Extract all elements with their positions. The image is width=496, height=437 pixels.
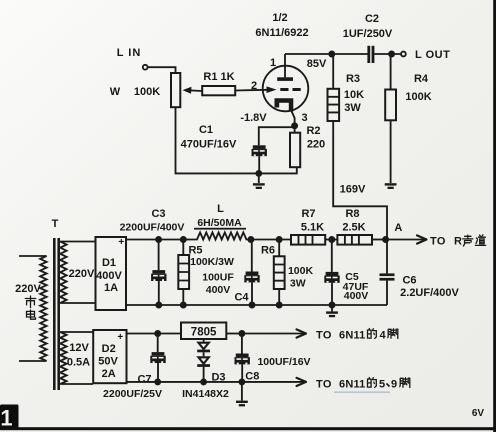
svg-text:1: 1 bbox=[270, 57, 276, 69]
svg-text:1: 1 bbox=[0, 406, 12, 431]
svg-text:R3: R3 bbox=[346, 73, 360, 85]
regulator 7805 bbox=[181, 323, 226, 340]
hanzi 市 bbox=[25, 296, 35, 308]
node C8 top bbox=[238, 330, 245, 337]
wire C3 bottom bbox=[158, 281, 160, 305]
wire R7 to R8 bbox=[325, 239, 337, 241]
wire plate pin1 to top rail bbox=[284, 54, 286, 77]
capacitor C5 47UF 400V bbox=[324, 272, 339, 283]
svg-text:1/2: 1/2 bbox=[272, 12, 287, 24]
svg-text:169V: 169V bbox=[340, 184, 366, 196]
hanzi 道 bbox=[475, 235, 485, 246]
wire C6 drop bbox=[386, 240, 388, 274]
svg-text:3W: 3W bbox=[344, 102, 361, 114]
hanzi 脚 (pin4) bbox=[388, 329, 398, 339]
node plate/R3 junction bbox=[328, 51, 335, 58]
ground symbol (upper supply) bbox=[326, 311, 338, 317]
resistor R7 5.1K bbox=[291, 235, 325, 245]
svg-text:0.5A: 0.5A bbox=[67, 357, 90, 369]
svg-text:3: 3 bbox=[301, 112, 307, 124]
node C1/ground junction bbox=[255, 170, 262, 177]
svg-text:6H/50MA: 6H/50MA bbox=[197, 217, 242, 229]
svg-text:T: T bbox=[52, 218, 59, 230]
wire secondary2 top lead bbox=[60, 332, 93, 334]
svg-text:1A: 1A bbox=[104, 282, 118, 294]
wire B+ rail from D1 to choke bbox=[126, 239, 188, 241]
svg-text:10K: 10K bbox=[344, 89, 364, 101]
wire arrow to 6N11 pins 5,9 bbox=[242, 381, 306, 383]
node cathode junction bbox=[291, 122, 298, 129]
wire secondary1 top lead bbox=[60, 241, 95, 243]
svg-text:5.1K: 5.1K bbox=[301, 222, 324, 234]
svg-text:R6: R6 bbox=[261, 245, 275, 257]
svg-text:A: A bbox=[394, 222, 402, 234]
svg-text:6N11: 6N11 bbox=[339, 330, 366, 342]
node R5 bottom bbox=[180, 302, 187, 309]
svg-text:100K: 100K bbox=[134, 86, 160, 98]
svg-text:470UF/16V: 470UF/16V bbox=[181, 139, 237, 151]
wire R4 to ground bbox=[390, 120, 392, 183]
wire 7805 output bbox=[226, 333, 242, 335]
capacitor C6 plate bottom bbox=[380, 278, 395, 281]
svg-text:R: R bbox=[454, 236, 462, 248]
wire R8 to node A bbox=[372, 239, 386, 241]
wire C2 to output bbox=[374, 53, 400, 55]
svg-text:100UF: 100UF bbox=[202, 272, 234, 284]
arrowhead 6N11 pin4 bbox=[297, 329, 307, 337]
wire R6 bottom stub bbox=[278, 289, 280, 305]
svg-text:L: L bbox=[217, 203, 224, 215]
svg-text:IN4148X2: IN4148X2 bbox=[182, 388, 229, 400]
svg-text:D1: D1 bbox=[102, 257, 116, 269]
svg-text:-1.8V: -1.8V bbox=[240, 112, 267, 124]
svg-text:C3: C3 bbox=[151, 208, 165, 220]
svg-text:100K: 100K bbox=[405, 91, 431, 103]
capacitor C2 plate right bbox=[372, 46, 375, 63]
svg-text:+: + bbox=[117, 332, 123, 343]
capacitor C1 470UF/16V bbox=[252, 145, 267, 156]
svg-text:C6: C6 bbox=[402, 275, 416, 287]
svg-text:100K: 100K bbox=[288, 265, 314, 277]
node C3 bottom bbox=[155, 302, 162, 309]
rectifier D2 50V 2A bbox=[93, 330, 126, 383]
svg-text:100K/3W: 100K/3W bbox=[190, 256, 234, 268]
tube grid dash 2 bbox=[293, 88, 301, 91]
node R6 top bbox=[276, 236, 283, 243]
svg-text:TO: TO bbox=[316, 379, 332, 391]
wire D2 plus rail to 7805 bbox=[127, 333, 182, 335]
resistor R8 2.5K bbox=[337, 235, 372, 245]
tube plate (anode) bbox=[277, 77, 293, 81]
svg-text:C1: C1 bbox=[199, 124, 213, 136]
svg-text:TO: TO bbox=[430, 236, 446, 248]
wire C5 drop bbox=[331, 240, 333, 272]
svg-text:R5: R5 bbox=[188, 245, 202, 257]
resistor R5 100K/3W bbox=[178, 255, 189, 289]
svg-text:R1 1K: R1 1K bbox=[203, 71, 234, 83]
node C7 bottom bbox=[154, 378, 161, 385]
svg-text:W: W bbox=[110, 86, 121, 98]
grid arrow into tube bbox=[267, 86, 277, 93]
svg-text:L IN: L IN bbox=[117, 47, 142, 59]
wire input to potentiometer top bbox=[148, 67, 176, 73]
capacitor C6 plate top bbox=[380, 273, 395, 276]
wire arrow to R channel bbox=[386, 239, 426, 241]
wire R3 bottom to 169V line bbox=[333, 121, 387, 240]
node C2/R4 junction bbox=[388, 51, 395, 58]
node R5/choke left bbox=[180, 236, 187, 243]
node C7 top bbox=[154, 330, 161, 337]
wire rail choke to R7 bbox=[251, 239, 291, 241]
wire C6 bottom bbox=[386, 281, 388, 305]
hanzi 的 (pin4) bbox=[368, 329, 377, 339]
svg-text:400V: 400V bbox=[344, 290, 369, 302]
svg-text:L OUT: L OUT bbox=[415, 49, 450, 61]
wire C8 drop bbox=[241, 334, 243, 354]
svg-text:2.2UF/400V: 2.2UF/400V bbox=[400, 287, 459, 299]
svg-text:C8: C8 bbox=[245, 371, 259, 383]
svg-text:C2: C2 bbox=[365, 13, 379, 25]
potentiometer wiper arrow bbox=[183, 87, 203, 94]
svg-text:220V: 220V bbox=[69, 268, 95, 280]
svg-text:220: 220 bbox=[307, 139, 325, 151]
input terminal L IN bbox=[143, 65, 148, 70]
wire node to C1 bbox=[259, 127, 295, 145]
wire primary bottom lead bbox=[19, 360, 47, 362]
svg-text:1UF/250V: 1UF/250V bbox=[343, 28, 393, 40]
wire R4 top bbox=[390, 54, 392, 90]
hanzi 脚 (pins 5,9) bbox=[400, 378, 410, 388]
stub R2 top bbox=[294, 126, 296, 133]
tube cathode bbox=[275, 98, 294, 111]
wire top rail to C2 bbox=[285, 53, 368, 55]
wire C4 bottom bbox=[251, 282, 253, 305]
capacitor C4 bbox=[244, 272, 259, 283]
wire secondary1 bottom lead bbox=[60, 302, 95, 304]
ground stub (lower supply) bbox=[241, 382, 243, 401]
svg-text:6V: 6V bbox=[472, 408, 485, 419]
tube grid dash 1 bbox=[280, 88, 288, 91]
svg-text:+: + bbox=[118, 237, 124, 248]
node C4 bottom bbox=[249, 302, 256, 309]
transformer core bar right bbox=[57, 238, 60, 390]
svg-text:9: 9 bbox=[391, 379, 397, 391]
wire node to R3 bbox=[332, 54, 334, 89]
wire C4 top bbox=[251, 240, 253, 272]
hanzi 的 (pins 5,9) bbox=[368, 378, 377, 388]
choke L 6H/50MA zigzag bbox=[183, 232, 251, 239]
ground stub (upper supply) bbox=[331, 305, 333, 311]
svg-text:R4: R4 bbox=[414, 73, 429, 85]
arrowhead 6N11 pins 5,9 bbox=[297, 378, 307, 386]
wire R1 to grid bbox=[235, 89, 268, 92]
node choke right / C4 top bbox=[247, 236, 254, 243]
svg-text:6N11: 6N11 bbox=[339, 379, 366, 391]
svg-text:2200UF/400V: 2200UF/400V bbox=[120, 222, 185, 234]
output terminal L OUT bbox=[401, 52, 406, 57]
svg-text:R7: R7 bbox=[301, 208, 315, 220]
wire 7805 gnd to D3 bbox=[203, 339, 205, 342]
resistor R2 220 bbox=[290, 133, 300, 168]
svg-text:C7: C7 bbox=[137, 374, 151, 386]
right border bbox=[493, 0, 496, 432]
svg-text:2.5K: 2.5K bbox=[342, 222, 365, 234]
diode D3a bbox=[197, 343, 210, 353]
svg-text:7805: 7805 bbox=[191, 327, 217, 339]
wire C7 bottom bbox=[157, 363, 159, 382]
ground rail (lower supply) bbox=[127, 381, 242, 383]
wire between diodes bbox=[203, 352, 205, 356]
capacitor C3 bbox=[151, 270, 166, 281]
potentiometer W 100K bbox=[171, 73, 180, 107]
wire C5 bottom bbox=[331, 283, 333, 305]
wire C7 drop bbox=[157, 334, 159, 353]
node C5 bottom / ground bbox=[329, 302, 336, 309]
svg-text:4: 4 bbox=[379, 330, 386, 342]
svg-text:400V: 400V bbox=[96, 270, 122, 282]
node C8 bottom bbox=[238, 378, 245, 385]
node D3 bottom bbox=[200, 378, 207, 385]
wire R5 bottom stub bbox=[182, 289, 184, 305]
svg-text:220V: 220V bbox=[15, 283, 41, 295]
svg-text:TO: TO bbox=[316, 330, 332, 342]
figure number box 1 bbox=[0, 405, 19, 431]
diode D3b bbox=[197, 357, 210, 367]
node R7/R8 junction C5 top bbox=[328, 236, 335, 243]
bottom border bbox=[0, 427, 496, 430]
wire primary top lead bbox=[19, 255, 47, 257]
ideographic comma bbox=[387, 384, 390, 387]
svg-text:2A: 2A bbox=[102, 368, 116, 380]
capacitor C8 100UF/16V bbox=[235, 354, 250, 365]
resistor R6 100K 3W bbox=[274, 256, 285, 289]
svg-text:85V: 85V bbox=[307, 58, 327, 70]
wire to ground stub bbox=[258, 173, 260, 183]
wire arrow to 6N11 pin4 bbox=[242, 333, 306, 335]
node R6 bottom bbox=[276, 302, 283, 309]
underline 6H/50MA bbox=[194, 228, 246, 230]
tube U1 envelope 1/2 6N11/6922 bbox=[263, 66, 309, 112]
resistor R3 10K 3W bbox=[328, 89, 340, 121]
arrowhead R channel bbox=[417, 235, 427, 243]
svg-text:100UF/16V: 100UF/16V bbox=[257, 356, 310, 368]
transformer primary winding 220V bbox=[40, 256, 46, 361]
ground rail (upper supply) bbox=[126, 304, 387, 306]
hanzi 电 bbox=[27, 310, 36, 319]
svg-text:D2: D2 bbox=[102, 343, 116, 355]
rectifier D1 400V 1A bbox=[96, 237, 127, 310]
wire D3 to ground rail bbox=[203, 367, 205, 382]
svg-text:12V: 12V bbox=[69, 342, 89, 354]
wire C3 top bbox=[158, 240, 160, 271]
svg-text:5: 5 bbox=[379, 379, 385, 391]
svg-text:3W: 3W bbox=[290, 278, 306, 290]
resistor R1 bbox=[202, 86, 235, 95]
transformer secondary winding 12V bbox=[60, 332, 66, 384]
svg-text:R2: R2 bbox=[306, 125, 320, 137]
wire C1 to bottom node bbox=[258, 156, 260, 172]
capacitor C7 2200UF/25V bbox=[150, 352, 165, 363]
transformer secondary winding 220V bbox=[60, 242, 66, 304]
wire pot bottom to R2 bottom bbox=[176, 107, 297, 173]
wire R5 top stub bbox=[182, 240, 184, 256]
ground below R4 bbox=[385, 183, 397, 189]
hanzi 声 bbox=[463, 235, 473, 246]
resistor R4 100K bbox=[385, 90, 396, 121]
svg-text:400V: 400V bbox=[206, 284, 231, 296]
wire cathode to node bbox=[292, 111, 295, 126]
wire secondary2 bottom lead bbox=[60, 383, 93, 385]
wire R6 top stub bbox=[278, 240, 280, 257]
svg-text:6N11/6922: 6N11/6922 bbox=[255, 27, 308, 39]
ground below C1 bbox=[253, 183, 265, 189]
svg-text:R8: R8 bbox=[345, 208, 359, 220]
wire C8 bottom bbox=[241, 364, 243, 382]
capacitor C2 plate left bbox=[367, 46, 370, 63]
transformer core bar left bbox=[53, 238, 56, 390]
node A bbox=[382, 236, 389, 243]
svg-text:2200UF/25V: 2200UF/25V bbox=[103, 388, 162, 400]
ground symbol (lower supply) bbox=[236, 401, 248, 407]
svg-text:2: 2 bbox=[251, 80, 257, 92]
svg-text:50V: 50V bbox=[98, 356, 118, 368]
svg-text:C4: C4 bbox=[234, 292, 249, 304]
blue underline pins 5,9 text bbox=[334, 392, 390, 393]
node C3 top bbox=[155, 236, 162, 243]
